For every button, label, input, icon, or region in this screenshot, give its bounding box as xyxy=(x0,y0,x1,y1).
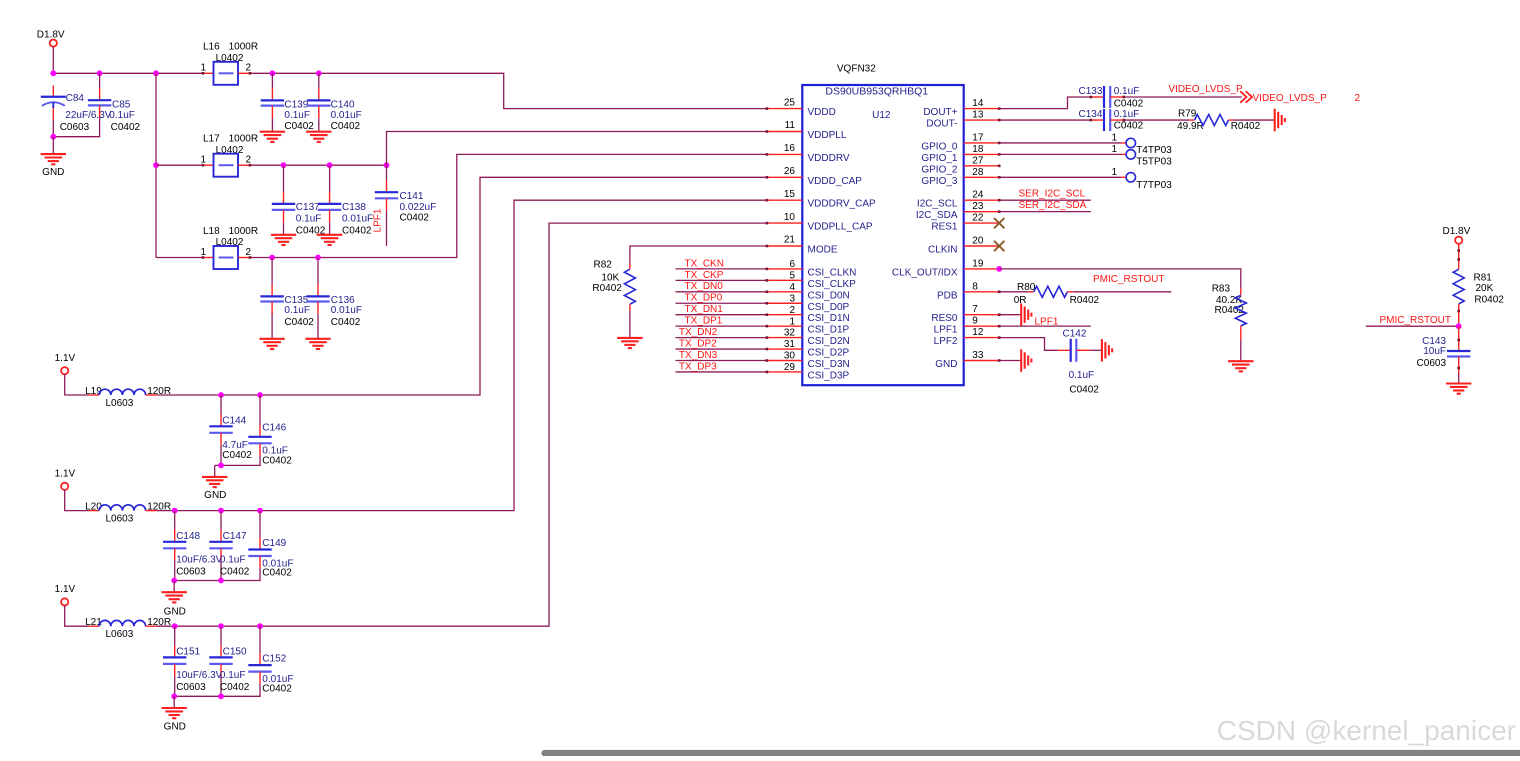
wire D1.8V flag to R81 xyxy=(1458,244,1460,269)
node bus/C139 xyxy=(270,70,276,76)
ground (under C137) xyxy=(271,234,296,236)
ground (under C136) xyxy=(305,338,330,340)
svg-text:0.1uF: 0.1uF xyxy=(109,110,135,121)
wire net PMIC_RSTOUT stub xyxy=(1366,325,1459,327)
svg-text:L17: L17 xyxy=(203,134,220,145)
wire ground bus to GND symbol (rail 1) xyxy=(214,465,216,477)
svg-text:C0402: C0402 xyxy=(262,568,292,579)
svg-text:20K: 20K xyxy=(1476,283,1494,294)
node L17 row / C137 xyxy=(281,162,287,168)
wire 1.1V flag to rail xyxy=(65,490,89,511)
svg-text:27: 27 xyxy=(972,155,984,166)
svg-text:0.1uF: 0.1uF xyxy=(284,305,310,316)
node ground bus junction xyxy=(171,578,177,584)
svg-text:D1.8V: D1.8V xyxy=(1443,226,1471,237)
wire net TX_CKP to U12 xyxy=(676,279,767,281)
wire net TX_DN2 to U12 xyxy=(676,337,767,339)
svg-text:1.1V: 1.1V xyxy=(55,469,76,480)
node ground bus junction xyxy=(171,693,177,699)
svg-text:9: 9 xyxy=(972,316,978,327)
svg-text:21: 21 xyxy=(784,235,796,246)
node ground bus junction xyxy=(218,463,224,469)
svg-text:DOUT-: DOUT- xyxy=(926,119,957,130)
U12 pin 15 VDDDRV_CAP (left) xyxy=(766,189,876,210)
node L18 row / C136 xyxy=(315,255,321,261)
U12 pin 11 VDDPLL (left) xyxy=(766,120,847,141)
svg-text:C0603: C0603 xyxy=(60,122,90,133)
svg-text:DS90UB953QRHBQ1: DS90UB953QRHBQ1 xyxy=(825,86,928,98)
node rail/C150 xyxy=(218,623,224,629)
svg-text:C0402: C0402 xyxy=(284,121,314,132)
wire net TX_DN0 to U12 xyxy=(676,291,767,293)
U12 pin 5 CSI_CLKP (left) xyxy=(766,270,857,289)
svg-text:C0603: C0603 xyxy=(176,567,206,578)
resistor R82 10K R0402 xyxy=(592,260,635,311)
wire R80 to net PMIC_RSTOUT xyxy=(1073,291,1172,293)
U12 pin 20 CLKIN (right) xyxy=(928,236,1000,256)
svg-text:VDDD_CAP: VDDD_CAP xyxy=(808,176,863,187)
svg-text:VDDPLL: VDDPLL xyxy=(808,130,847,141)
svg-text:23: 23 xyxy=(972,201,984,212)
svg-text:24: 24 xyxy=(972,190,984,201)
svg-text:CSI_D1P: CSI_D1P xyxy=(808,325,850,336)
svg-text:T5TP03: T5TP03 xyxy=(1136,157,1172,168)
wire R79 to ground xyxy=(1234,119,1275,121)
svg-text:C0402: C0402 xyxy=(222,450,252,461)
svg-text:0.1uF: 0.1uF xyxy=(1114,86,1140,97)
svg-text:1.1V: 1.1V xyxy=(55,584,76,595)
svg-text:0.1uF: 0.1uF xyxy=(1114,109,1140,120)
node pin 19 CLK_OUT/IDX xyxy=(996,266,1002,272)
wire net SER_I2C_SDA from pin 23 xyxy=(999,211,1091,213)
wire 1.1V rail 2 to VDDDRV_CAP pin 15 of U12 xyxy=(157,200,767,510)
svg-text:0.1uF: 0.1uF xyxy=(220,670,246,681)
svg-text:CSI_CLKP: CSI_CLKP xyxy=(808,279,857,290)
U12 pin 31 CSI_D2P (left) xyxy=(766,339,850,358)
svg-text:L0603: L0603 xyxy=(106,629,134,640)
inductor L16 1000R L0402 (ferrite bead) xyxy=(201,42,259,85)
svg-text:C0603: C0603 xyxy=(176,682,206,693)
svg-text:VQFN32: VQFN32 xyxy=(837,64,876,75)
wire left 1.8V branch bus (vertical x=156) xyxy=(155,73,157,257)
svg-text:R0402: R0402 xyxy=(1474,295,1504,306)
U12 pin 10 VDDPLL_CAP (left) xyxy=(766,212,873,233)
svg-text:TX_CKN: TX_CKN xyxy=(685,258,724,269)
svg-text:4: 4 xyxy=(789,282,795,293)
svg-text:TX_DP1: TX_DP1 xyxy=(685,316,723,327)
svg-text:C150: C150 xyxy=(223,647,247,658)
svg-text:0.1uF: 0.1uF xyxy=(220,555,246,566)
svg-text:CSDN @kernel_panicer: CSDN @kernel_panicer xyxy=(1217,715,1516,746)
ground (right of pin 33, rotated) xyxy=(1020,349,1022,372)
svg-text:5: 5 xyxy=(789,270,795,281)
svg-text:C0402: C0402 xyxy=(331,121,361,132)
svg-text:13: 13 xyxy=(972,110,984,121)
svg-text:VDDD: VDDD xyxy=(808,107,836,118)
svg-text:33: 33 xyxy=(972,350,984,361)
svg-text:10K: 10K xyxy=(601,272,619,283)
svg-text:12: 12 xyxy=(972,327,984,338)
wire net TX_DP0 to U12 xyxy=(676,302,767,304)
wire C85 bottom to ground node xyxy=(53,117,99,137)
svg-text:25: 25 xyxy=(784,97,796,108)
resistor R79 49.9R R0402 xyxy=(1177,108,1261,132)
ground GND (rail 1) xyxy=(202,476,227,478)
wire ground bus to GND symbol (rail 3) xyxy=(173,696,175,708)
inductor L21 120R L0603 xyxy=(85,617,171,640)
wire rail 1 ground bus xyxy=(215,464,261,466)
U12 pin 6 CSI_CLKN (left) xyxy=(766,259,857,278)
test point T7TP03 xyxy=(1111,167,1172,191)
svg-text:C141: C141 xyxy=(400,191,424,202)
node 1.8V bus / C85 xyxy=(97,70,103,76)
svg-text:L16: L16 xyxy=(203,42,220,53)
svg-text:C0402: C0402 xyxy=(220,682,250,693)
svg-text:GPIO_2: GPIO_2 xyxy=(921,164,958,175)
svg-text:C0402: C0402 xyxy=(284,317,314,328)
svg-text:C0402: C0402 xyxy=(331,317,361,328)
wire GPIO pin to test point T4TP03 xyxy=(999,142,1121,144)
capacitor C141 0.022uF C0402 xyxy=(375,165,436,223)
svg-text:C147: C147 xyxy=(223,531,247,542)
svg-text:10uF/6.3V: 10uF/6.3V xyxy=(176,555,222,566)
U12 pin 3 CSI_D0P (left) xyxy=(766,293,850,312)
wire L17 row (right of L17) to C141 node xyxy=(250,164,387,166)
svg-text:C0402: C0402 xyxy=(400,213,430,224)
inductor L19 120R L0603 xyxy=(85,386,171,409)
wire C133 to off-page connector VIDEO_LVDS_P xyxy=(1124,96,1242,98)
U12 pin 1 CSI_D1P (left) xyxy=(766,316,850,335)
svg-text:1: 1 xyxy=(1111,132,1117,143)
capacitor C143 10uF C0603 xyxy=(1417,326,1471,373)
svg-text:GPIO_1: GPIO_1 xyxy=(921,153,958,164)
svg-text:R83: R83 xyxy=(1212,284,1231,295)
ground (under R83) xyxy=(1228,360,1253,362)
svg-text:22uF/6.3V: 22uF/6.3V xyxy=(65,110,111,121)
inductor L20 120R L0603 xyxy=(85,501,171,524)
svg-text:2: 2 xyxy=(789,305,795,316)
svg-text:7: 7 xyxy=(972,304,978,315)
capacitor C138 0.01uF C0402 xyxy=(318,165,373,237)
svg-text:U12: U12 xyxy=(872,110,891,121)
capacitor C136 0.01uF C0402 xyxy=(306,258,362,339)
svg-text:19: 19 xyxy=(972,258,984,269)
U12 pin 12 LPF2 (right) xyxy=(934,327,1001,347)
svg-text:TX_DN1: TX_DN1 xyxy=(685,304,724,315)
svg-text:0.1uF: 0.1uF xyxy=(296,214,322,225)
svg-text:GND: GND xyxy=(204,490,226,501)
U12 pin 27 GPIO_2 (right) xyxy=(921,155,1000,175)
svg-text:VDDPLL_CAP: VDDPLL_CAP xyxy=(808,222,873,233)
ground GND (under C84) xyxy=(41,153,66,155)
wire C84 to ground node xyxy=(52,120,54,137)
svg-text:L0603: L0603 xyxy=(106,398,134,409)
capacitor C139 0.1uF C0402 xyxy=(261,73,315,132)
node C84/C85/GND junction xyxy=(50,134,56,140)
svg-text:C148: C148 xyxy=(176,531,200,542)
svg-text:GND: GND xyxy=(164,606,186,617)
svg-text:30: 30 xyxy=(784,351,796,362)
svg-text:TX_DP2: TX_DP2 xyxy=(679,339,717,350)
wire L17 row (left of L17) xyxy=(156,164,203,166)
U12 pin 13 DOUT- (right) xyxy=(926,110,1000,130)
node ground bus junction xyxy=(218,578,224,584)
U12 pin 4 CSI_D0N (left) xyxy=(766,282,850,301)
svg-text:1000R: 1000R xyxy=(229,42,258,53)
svg-text:15: 15 xyxy=(784,189,796,200)
svg-text:SER_I2C_SCL: SER_I2C_SCL xyxy=(1019,189,1086,200)
svg-text:26: 26 xyxy=(784,166,796,177)
test point T5TP03 xyxy=(1111,144,1172,168)
wire L18 row (right of L18) to VDDDRV pin 16 of U12 xyxy=(250,154,767,257)
U12 pin 32 CSI_D2N (left) xyxy=(766,328,850,347)
ground (under R82) xyxy=(617,337,642,339)
U12 pin 24 I2C_SCL (right) xyxy=(917,190,1001,210)
resistor R80 0R R0402 xyxy=(1014,282,1100,306)
svg-text:C0402: C0402 xyxy=(1069,385,1099,396)
ground (under C138) xyxy=(317,234,342,236)
U12 pin 19 CLK_OUT/IDX (right) xyxy=(892,258,1001,278)
svg-text:PDB: PDB xyxy=(937,290,958,301)
U12 pin 33 GND (right) xyxy=(935,350,1000,370)
svg-text:3: 3 xyxy=(789,293,795,304)
svg-text:10uF/6.3V: 10uF/6.3V xyxy=(176,670,222,681)
ground (under C143) xyxy=(1446,382,1471,384)
wire R83 to ground xyxy=(1240,340,1242,362)
svg-text:C144: C144 xyxy=(222,415,246,426)
svg-text:T4TP03: T4TP03 xyxy=(1136,145,1172,156)
svg-text:C84: C84 xyxy=(66,93,85,104)
wire 1.8V top bus (left of L16) xyxy=(53,72,203,74)
U12 pin 17 GPIO_0 (right) xyxy=(921,132,1000,152)
svg-text:I2C_SCL: I2C_SCL xyxy=(917,199,958,210)
wire R82 to ground xyxy=(629,311,631,338)
capacitor C150 0.1uF C0402 xyxy=(209,626,250,696)
svg-text:VDDDRV_CAP: VDDDRV_CAP xyxy=(808,199,876,210)
capacitor C152 0.01uF C0402 xyxy=(248,626,293,696)
svg-text:CSI_D2N: CSI_D2N xyxy=(808,336,850,347)
svg-text:R0402: R0402 xyxy=(592,283,622,294)
wire 1.1V rail 1 to VDDD_CAP pin 26 of U12 xyxy=(157,177,767,395)
svg-text:L0603: L0603 xyxy=(106,514,134,525)
svg-text:R79: R79 xyxy=(1178,108,1197,119)
svg-text:31: 31 xyxy=(784,339,796,350)
U12 pin 22 RES1 (right) xyxy=(931,213,1000,233)
node L17 row / C138 xyxy=(327,162,333,168)
resistor R83 40.2K R0402 xyxy=(1212,284,1247,340)
wire net TX_DP2 to U12 xyxy=(676,348,767,350)
wire net TX_DP3 to U12 xyxy=(676,371,767,373)
wire net TX_DP1 to U12 xyxy=(676,325,767,327)
svg-text:VIDEO_LVDS_P: VIDEO_LVDS_P xyxy=(1168,84,1243,95)
svg-text:GPIO_3: GPIO_3 xyxy=(921,176,958,187)
svg-text:32: 32 xyxy=(784,328,796,339)
svg-text:1000R: 1000R xyxy=(229,134,258,145)
svg-text:L18: L18 xyxy=(203,226,220,237)
U12 pin 23 I2C_SDA (right) xyxy=(916,201,1001,221)
svg-text:C133: C133 xyxy=(1079,86,1103,97)
U12 pin 29 CSI_D3P (left) xyxy=(766,362,850,381)
svg-text:C137: C137 xyxy=(296,202,320,213)
svg-text:D1.8V: D1.8V xyxy=(37,30,65,41)
wire 1.1V flag to rail xyxy=(65,606,89,627)
node PMIC_RSTOUT/R81/C143 xyxy=(1456,323,1462,329)
svg-text:C0402: C0402 xyxy=(1114,121,1144,132)
svg-text:LPF1: LPF1 xyxy=(373,208,384,232)
capacitor C137 0.1uF C0402 xyxy=(272,165,326,237)
wire C143 to ground xyxy=(1458,374,1460,384)
wire MODE pin 21 of U12 to R82 xyxy=(630,246,767,263)
svg-text:R0402: R0402 xyxy=(1231,121,1261,132)
U12 pin 9 LPF1 (right) xyxy=(934,316,1001,336)
svg-text:0.01uF: 0.01uF xyxy=(342,214,373,225)
wire 1.8V bus (right of L16) to VDDD pin 25 of U12 xyxy=(250,73,767,108)
wire 1.1V flag to rail xyxy=(65,374,89,395)
capacitor C133 0.1uF C0402 xyxy=(1079,86,1144,109)
U12 pin 2 CSI_D1N (left) xyxy=(766,305,850,324)
test point T4TP03 xyxy=(1111,132,1172,156)
U12 pin 30 CSI_D3N (left) xyxy=(766,351,850,370)
wire net TX_CKN to U12 xyxy=(676,268,767,270)
svg-text:TX_DN2: TX_DN2 xyxy=(679,327,718,338)
svg-text:LPF2: LPF2 xyxy=(934,336,958,347)
capacitor C84 22uF/6.3V C0603 (polarized) xyxy=(41,86,112,134)
svg-text:CSI_D3P: CSI_D3P xyxy=(808,370,850,381)
svg-text:C0402: C0402 xyxy=(342,226,372,237)
svg-text:11: 11 xyxy=(785,120,796,131)
svg-text:1: 1 xyxy=(1111,167,1117,178)
U12 pin 28 GPIO_3 (right) xyxy=(921,167,1000,187)
node rail/C152 xyxy=(257,623,263,629)
svg-text:PMIC_RSTOUT: PMIC_RSTOUT xyxy=(1093,274,1165,285)
svg-text:C146: C146 xyxy=(262,422,286,433)
wire DOUT- pin 13 to C134 xyxy=(999,119,1091,121)
ground (under C135) xyxy=(259,338,284,340)
svg-text:C134: C134 xyxy=(1079,109,1103,120)
svg-text:RES0: RES0 xyxy=(931,313,958,324)
resistor R81 20K R0402 xyxy=(1453,269,1504,326)
svg-text:C0402: C0402 xyxy=(262,455,292,466)
svg-text:1.1V: 1.1V xyxy=(55,353,76,364)
U12 pin 26 VDDD_CAP (left) xyxy=(766,166,863,187)
svg-text:CSI_D1N: CSI_D1N xyxy=(808,313,850,324)
wire rail 3 ground bus xyxy=(174,695,261,697)
wire LPF1 pin 9 xyxy=(999,325,1091,327)
svg-text:TX_DP0: TX_DP0 xyxy=(685,293,723,304)
wire 1.1V rail 3 to VDDPLL_CAP pin 10 of U12 xyxy=(157,223,767,626)
svg-text:C0603: C0603 xyxy=(1417,358,1447,369)
node ground bus junction xyxy=(218,693,224,699)
ground (under C140) xyxy=(306,131,331,133)
svg-text:0.01uF: 0.01uF xyxy=(331,110,362,121)
svg-text:8: 8 xyxy=(972,281,978,292)
svg-text:CLKIN: CLKIN xyxy=(928,245,957,256)
node 1.8V bus / C84 xyxy=(50,70,56,76)
svg-text:14: 14 xyxy=(972,98,984,109)
svg-text:MODE: MODE xyxy=(808,245,838,256)
svg-text:TX_CKP: TX_CKP xyxy=(685,270,724,281)
svg-text:R81: R81 xyxy=(1474,272,1493,283)
svg-text:TX_DP3: TX_DP3 xyxy=(679,362,717,373)
wire RES0 pin 7 to ground xyxy=(999,314,1021,316)
wire C134 to R79 xyxy=(1124,119,1189,121)
wire C141 bottom (net LPF1) xyxy=(386,211,388,246)
svg-text:SER_I2C_SDA: SER_I2C_SDA xyxy=(1019,200,1087,211)
svg-text:C0402: C0402 xyxy=(111,122,141,133)
svg-text:0R: 0R xyxy=(1014,295,1027,306)
no-connect X on pin 20 CLKIN xyxy=(994,241,1004,251)
ground (right of C142, rotated) xyxy=(1101,339,1103,362)
wire net TX_DN1 to U12 xyxy=(676,314,767,316)
wire junction to GND symbol xyxy=(52,137,54,154)
svg-text:CSI_D0P: CSI_D0P xyxy=(808,302,850,313)
node L17 row / C141 / VDDPLL wire xyxy=(384,162,390,168)
svg-text:C0402: C0402 xyxy=(220,567,250,578)
wire net SER_I2C_SCL from pin 24 xyxy=(999,199,1091,201)
svg-text:C151: C151 xyxy=(176,647,200,658)
wire CLK_OUT/IDX pin 19 to R83 xyxy=(999,269,1241,289)
node rail/C146 xyxy=(257,392,263,398)
capacitor C85 0.1uF C0402 xyxy=(88,73,141,133)
U12 pin 16 VDDDRV (left) xyxy=(766,143,850,164)
wire net TX_DN3 to U12 xyxy=(676,360,767,362)
node rail/C151 xyxy=(172,623,178,629)
node rail/C149 xyxy=(257,508,263,514)
node branch bus / L17 row xyxy=(153,162,159,168)
svg-text:TX_DN0: TX_DN0 xyxy=(685,281,724,292)
svg-text:TX_DN3: TX_DN3 xyxy=(679,350,718,361)
U12 pin 25 VDDD (left) xyxy=(766,97,836,118)
ground (right of R79, rotated) xyxy=(1274,109,1276,132)
svg-text:29: 29 xyxy=(784,362,796,373)
wire LPF2 pin 12 to C142 xyxy=(999,338,1058,351)
wire D1.8V flag to 1.8V bus xyxy=(52,47,54,74)
svg-text:28: 28 xyxy=(972,167,984,178)
inductor L17 1000R L0402 (ferrite bead) xyxy=(201,134,259,177)
wire PDB pin 8 to R80 xyxy=(999,291,1028,293)
node rail/C148 xyxy=(172,508,178,514)
svg-text:C0402: C0402 xyxy=(262,683,292,694)
U12 pin 8 PDB (right) xyxy=(937,281,1001,301)
svg-text:6: 6 xyxy=(789,259,795,270)
svg-text:C152: C152 xyxy=(262,654,286,665)
ground GND (rail 2) xyxy=(162,591,187,593)
svg-text:C142: C142 xyxy=(1063,329,1087,340)
U12 pin 21 MODE (left) xyxy=(766,235,838,256)
svg-text:18: 18 xyxy=(972,144,984,155)
capacitor C151 10uF/6.3V C0603 xyxy=(163,626,223,696)
svg-text:R82: R82 xyxy=(594,260,613,271)
capacitor C142 0.1uF C0402 xyxy=(1058,329,1099,396)
wire GPIO pin to test point T5TP03 xyxy=(999,153,1121,155)
svg-text:GND: GND xyxy=(42,167,64,178)
svg-text:C138: C138 xyxy=(342,202,366,213)
ground (under C139) xyxy=(260,131,285,133)
node rail/C144 xyxy=(218,392,224,398)
capacitor C140 0.01uF C0402 xyxy=(307,73,362,132)
svg-text:17: 17 xyxy=(972,132,984,143)
U12 pin 18 GPIO_1 (right) xyxy=(921,144,1000,164)
svg-text:CSI_D2P: CSI_D2P xyxy=(808,348,850,359)
ground (right of pin 7, rotated) xyxy=(1020,303,1022,326)
svg-text:CLK_OUT/IDX: CLK_OUT/IDX xyxy=(892,267,958,278)
wire GPIO pin to test point T7TP03 xyxy=(999,176,1121,178)
svg-text:T7TP03: T7TP03 xyxy=(1136,180,1172,191)
svg-text:1000R: 1000R xyxy=(229,226,258,237)
capacitor C146 0.1uF C0402 xyxy=(248,395,292,466)
svg-text:10uF: 10uF xyxy=(1423,346,1446,357)
svg-text:GND: GND xyxy=(935,359,957,370)
